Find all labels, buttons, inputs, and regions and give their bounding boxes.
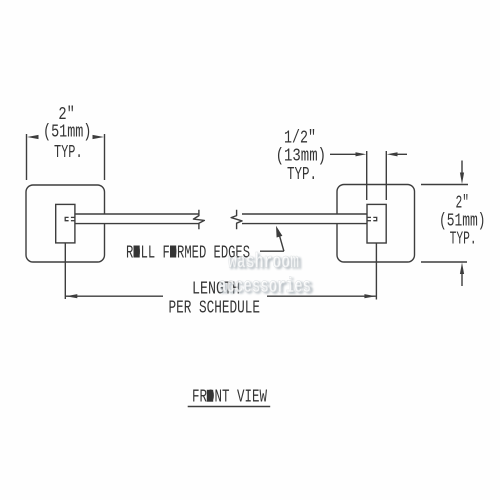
front view underline <box>188 406 271 408</box>
left dim extension line A <box>26 134 28 180</box>
svg-text:accessories: accessories <box>218 276 311 299</box>
left dim arrow right <box>93 135 105 139</box>
roll formed edges leader <box>260 250 284 252</box>
towel bar right segment (white body over plate edge) <box>242 214 367 224</box>
half inch extension line A <box>366 151 368 200</box>
svg-text:TYP.: TYP. <box>287 163 317 185</box>
left mounting plate <box>26 185 105 262</box>
right bar post / bracket <box>367 204 386 243</box>
svg-text:TYP.: TYP. <box>450 227 477 249</box>
svg-text:(51mm): (51mm) <box>43 120 91 142</box>
half inch extension line B <box>385 151 387 200</box>
svg-text:TYP.: TYP. <box>54 141 83 163</box>
svg-text:washroom: washroom <box>228 252 299 275</box>
filled O in FORMED <box>170 246 176 258</box>
half inch dim leader left <box>330 153 357 155</box>
right dim arrow top <box>461 161 463 174</box>
length dim arrow right <box>364 294 376 298</box>
length dim line left piece <box>66 295 163 297</box>
drop line from left post <box>64 243 66 299</box>
length dim line right piece <box>267 295 376 297</box>
right mounting plate <box>337 185 415 263</box>
left bar post / bracket <box>56 204 75 243</box>
right dim extension line top <box>421 184 468 186</box>
half inch dim leader right <box>396 153 407 155</box>
left dim extension line B <box>104 134 106 180</box>
filled O in ROLL <box>134 246 140 258</box>
right dim arrow bottom <box>461 274 463 286</box>
break symbol right <box>231 210 242 229</box>
right dim extension line bottom <box>421 261 467 263</box>
svg-text:FRONT VIEW: FRONT VIEW <box>192 386 267 408</box>
drop line from right post <box>375 243 377 300</box>
towel bar left segment (white body over plate edge) <box>75 214 199 224</box>
break symbol left <box>193 210 204 229</box>
right setscrew detail <box>373 217 376 220</box>
length dim arrow left <box>66 294 78 298</box>
filled O in FRONT <box>207 390 213 402</box>
left dim arrow left <box>27 135 39 139</box>
left setscrew detail <box>65 217 68 220</box>
